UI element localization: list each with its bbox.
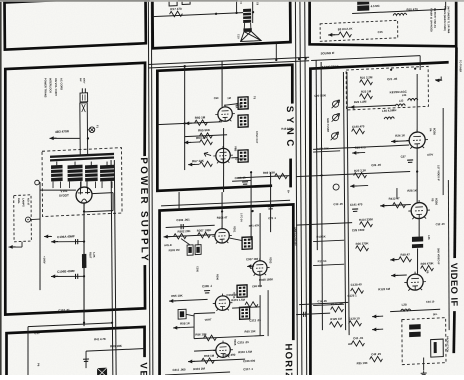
arrow V6 grid [391, 273, 398, 277]
right vertical wire H [442, 108, 443, 195]
svg-text:R71 47K: R71 47K [249, 223, 260, 227]
dot C/D bus [83, 321, 85, 323]
tube V305 [213, 340, 233, 358]
svg-text:R308 180K: R308 180K [259, 277, 273, 282]
svg-text:SOUND IF: SOUND IF [321, 51, 335, 56]
cap on G-H wire [304, 312, 306, 317]
svg-text:C316 600: C316 600 [243, 359, 256, 364]
drop to M1 [85, 351, 87, 368]
svg-text:POWER SUPPLY: POWER SUPPLY [138, 157, 150, 263]
svg-text:C29 1500: C29 1500 [352, 228, 365, 233]
junction on audio wire [215, 13, 217, 15]
svg-text:C69 390: C69 390 [252, 284, 263, 288]
svg-text:HORIZ: HORIZ [283, 343, 294, 375]
panel tuner (top-left, empty) [5, 0, 146, 50]
V8B feed vertical [223, 128, 224, 192]
wire video-if column a [343, 72, 345, 330]
svg-text:300V: 300V [82, 78, 84, 84]
cap C66A [242, 182, 248, 185]
T101 winding box 1 [51, 165, 63, 182]
svg-text:R473 1.5M: R473 1.5M [231, 298, 245, 303]
svg-text:150V: 150V [427, 152, 433, 156]
wire V303 up [259, 213, 262, 261]
svg-text:71-BZ8 (WHEN USED): 71-BZ8 (WHEN USED) [443, 6, 446, 31]
resistor hold [245, 302, 258, 308]
arrow resistor row [164, 235, 171, 239]
bus wire mid separator 2 [299, 0, 303, 375]
svg-text:L26: L26 [427, 235, 431, 240]
svg-text:JW TUNERS 71 OR JW8: JW TUNERS 71 OR JW8 [447, 6, 450, 34]
svg-text:C313 .05: C313 .05 [249, 318, 261, 323]
svg-text:R40 18K: R40 18K [110, 344, 123, 349]
vertical wire from bus [184, 66, 186, 170]
svg-text:AC CORD: AC CORD [60, 78, 64, 90]
svg-text:C303 .001: C303 .001 [176, 218, 190, 223]
cap C27 [407, 160, 413, 163]
dot C/D bus 2 [111, 322, 113, 324]
wire across E/G gap [161, 200, 290, 206]
arrow R67 [188, 162, 195, 166]
resistor R59 [202, 358, 215, 364]
svg-text:L40 4.5MH: L40 4.5MH [382, 108, 396, 113]
V5 feed wire [396, 188, 398, 199]
V101 loop right [112, 193, 114, 211]
resistor R21 [360, 79, 373, 85]
resistor R69 [275, 173, 288, 179]
svg-text:R41 4.7K: R41 4.7K [94, 337, 106, 342]
arrow C106B [51, 274, 58, 278]
svg-text:R55 10K: R55 10K [171, 294, 183, 299]
test point 3 [331, 132, 339, 140]
gap crossing wire 3 [251, 172, 252, 240]
svg-text:C27: C27 [401, 154, 407, 158]
svg-text:C317 .1: C317 .1 [243, 367, 253, 371]
resistor R124 [331, 306, 344, 312]
wire V303 down [259, 275, 261, 287]
thin wire along video-if border [448, 180, 450, 330]
horiz xfmr A [237, 285, 247, 297]
dashed box keyed AGC [346, 66, 428, 110]
svg-text:R21 2.2M: R21 2.2M [360, 75, 373, 80]
V8B grid diagonal arrow [204, 152, 211, 156]
svg-text:R23 1.8M: R23 1.8M [354, 100, 367, 105]
svg-text:C32 .05: C32 .05 [436, 222, 446, 226]
T101 secondary bar [50, 156, 114, 161]
tube V301 [212, 226, 232, 244]
arrow agc line [350, 105, 357, 109]
svg-text:C306 390: C306 390 [223, 353, 236, 358]
plug prong 1 [81, 88, 83, 93]
wire left strip 2 [313, 240, 344, 241]
bus wire horiz B/E gap 1 [148, 57, 309, 64]
fuse stub [87, 129, 89, 131]
svg-text:R58 1K: R58 1K [180, 321, 191, 325]
svg-text:VIDEO IF: VIDEO IF [449, 263, 459, 307]
wire C303 row [166, 225, 215, 227]
svg-text:C41 .01: C41 .01 [353, 336, 364, 340]
loop top [194, 312, 215, 315]
cap C303 [181, 224, 183, 229]
svg-text:C129 10: C129 10 [349, 316, 360, 321]
arrow near L28 [372, 314, 379, 318]
bus wire mid separator 3 [304, 0, 308, 375]
dot AGC box top 2 [414, 67, 416, 69]
svg-text:ON VOL CONT: ON VOL CONT [54, 78, 58, 97]
svg-text:C15: C15 [378, 30, 384, 34]
stub B bottom to bus [275, 44, 277, 61]
arrow C25 [352, 151, 359, 155]
tube V304 [213, 293, 233, 311]
arrow left dashed box [44, 234, 51, 238]
speaker lead 1 [243, 23, 245, 29]
svg-text:R29 470K: R29 470K [421, 261, 435, 266]
cap C106B [76, 274, 78, 279]
svg-text:V303: V303 [269, 257, 273, 264]
svg-text:4B3 470R: 4B3 470R [55, 129, 70, 134]
svg-text:C26 .05: C26 .05 [371, 163, 381, 167]
svg-text:C141 470: C141 470 [350, 202, 363, 207]
svg-text:2ND VIDEO IF: 2ND VIDEO IF [437, 248, 440, 265]
svg-text:L28: L28 [402, 302, 407, 306]
svg-text:C308 .1: C308 .1 [202, 284, 213, 288]
wire left strip 3 [313, 264, 344, 265]
svg-text:R412 47: R412 47 [389, 196, 400, 201]
svg-text:INTERLOCK: INTERLOCK [49, 78, 53, 93]
svg-text:R10 1K: R10 1K [317, 234, 326, 238]
speaker coil [243, 28, 251, 31]
svg-text:C106A 40MF: C106A 40MF [57, 234, 75, 239]
grid wire row 2 [185, 135, 227, 137]
wire drop to AGC box [419, 56, 421, 70]
scan left edge [0, 2, 2, 375]
arrow in dashed box [328, 33, 335, 37]
video-if right border upper [453, 48, 458, 259]
svg-text:B3 K3 2-7K: B3 K3 2-7K [338, 27, 353, 32]
arrow V5 grid [380, 204, 387, 208]
left column vertical wire 1 [111, 160, 113, 375]
resistor R414 [360, 221, 373, 227]
dashed enclosure T101 [42, 148, 122, 217]
resistor R65 [200, 133, 213, 139]
svg-text:R67 12K: R67 12K [192, 159, 205, 164]
interlock plug [80, 93, 88, 102]
test point 4 [333, 184, 339, 190]
lamp wire [31, 218, 40, 221]
svg-text:V301: V301 [233, 226, 237, 233]
cut component B top 1 [169, 0, 177, 6]
V305 grid wire [194, 349, 216, 352]
arrow C106A [51, 240, 58, 244]
vert control box [178, 309, 186, 319]
wire left strip 4 [313, 304, 344, 305]
dashed IF transformer can [402, 318, 446, 365]
svg-text:C315 .05: C315 .05 [237, 340, 249, 345]
svg-text:R5 R6 R7 USE AS: R5 R6 R7 USE AS [433, 8, 436, 29]
wire to control 1 [181, 238, 190, 245]
sync xfmr 3 [238, 150, 248, 162]
svg-text:HOLD: HOLD [164, 243, 172, 247]
video-if right border lower [453, 311, 454, 353]
V4 plate drop [416, 149, 419, 203]
arrow R28 [390, 258, 397, 262]
wire left strip [313, 151, 340, 152]
arrow V4 grid [391, 139, 398, 143]
resistor bottom left H [352, 340, 365, 346]
svg-text:R15 470: R15 470 [406, 7, 418, 12]
wire G to H a [299, 302, 348, 304]
gap crossing wire 2 [221, 192, 224, 229]
svg-text:C107 .01: C107 .01 [58, 308, 70, 313]
svg-text:C307 180: C307 180 [246, 257, 259, 262]
svg-text:C25 470: C25 470 [355, 145, 366, 150]
control box 2 [195, 245, 201, 255]
sound take-off transformer [357, 0, 369, 11]
panel video-if top+left [308, 62, 451, 380]
svg-text:L23: L23 [399, 98, 404, 102]
svg-text:C311 .005: C311 .005 [172, 367, 186, 372]
T2 lead left [235, 0, 237, 13]
cut component B top 2 [182, 0, 190, 4]
panel power-supply (left) [3, 63, 147, 315]
long wire into H mid [296, 171, 410, 176]
arrow bottom row [188, 359, 195, 363]
arrow V303 grid [247, 264, 254, 268]
cap C308 [204, 290, 210, 293]
test point 2 [332, 113, 340, 121]
svg-text:R60 10K: R60 10K [245, 329, 256, 333]
svg-text:VERT: VERT [137, 362, 148, 375]
resistor R502 [174, 233, 187, 239]
arrow R64 [184, 140, 191, 144]
resistor R412 [393, 202, 406, 208]
coil L40 [384, 117, 394, 119]
svg-text:R107: R107 [89, 252, 93, 259]
bottom row wire [188, 359, 245, 362]
wire video det [390, 309, 440, 311]
stub at top [445, 0, 447, 9]
plug prong 2 [84, 88, 86, 93]
bus wire horiz B/E gap 2 [148, 61, 309, 68]
T7 slug [434, 342, 437, 353]
panel vert (bottom-left) [6, 327, 145, 380]
svg-text:R22 1M: R22 1M [361, 89, 372, 93]
svg-text:R26 270K: R26 270K [356, 241, 370, 246]
coil L24 above V4 [408, 98, 418, 100]
sound if top wire [352, 9, 446, 13]
svg-text:2 TO 5V: 2 TO 5V [240, 213, 243, 222]
V101 plate stub 1 [80, 181, 82, 187]
pilot lamp [25, 217, 30, 222]
svg-text:R28 1K: R28 1K [407, 188, 417, 192]
svg-text:C60: C60 [214, 96, 219, 100]
svg-text:C21 .05: C21 .05 [387, 77, 398, 81]
wire in D to border [86, 348, 145, 351]
svg-text:R306: R306 [216, 274, 219, 281]
coil L28 [401, 309, 411, 311]
svg-text:1.2K: 1.2K [92, 252, 96, 258]
wire to V101 [40, 188, 76, 191]
svg-text:R11 1K: R11 1K [318, 259, 327, 263]
svg-text:C305: C305 [196, 266, 199, 273]
cap in D [83, 359, 89, 362]
svg-text:POWER TRANS: POWER TRANS [44, 78, 48, 98]
wire to control 2 [197, 240, 199, 245]
scan top edge [0, 0, 464, 2]
resistor R307 [198, 232, 211, 238]
svg-text:R310 1.5M: R310 1.5M [238, 350, 252, 355]
wire V304 grid [169, 299, 208, 301]
tube V303 [250, 258, 270, 276]
speaker lead 2 [250, 23, 252, 29]
svg-text:TUNER IS CHANGED: TUNER IS CHANGED [429, 8, 432, 32]
L27 to V6 [416, 248, 418, 274]
svg-text:SAWTOOTH 50V: SAWTOOTH 50V [294, 227, 297, 246]
svg-text:NO 47: NO 47 [27, 198, 30, 206]
svg-text:R65 56K: R65 56K [198, 128, 211, 133]
panel sync right border lower segment [289, 159, 292, 188]
line cord [80, 103, 88, 156]
gap crossing wire 4 [269, 172, 272, 232]
arrow AC line [49, 136, 56, 140]
tube V4 1st video if [406, 129, 428, 149]
svg-text:R17 470: R17 470 [170, 7, 182, 12]
svg-text:R310 2M: R310 2M [193, 367, 205, 372]
rectifier tube V101 [76, 187, 92, 206]
audio wire [153, 13, 244, 17]
resistor near C129 [349, 320, 362, 326]
coil T7 bottom [409, 332, 421, 338]
agc bent arrow stem [435, 77, 441, 80]
resistor R28 [399, 256, 412, 262]
wire resistor row [164, 235, 216, 237]
ground bottom H [421, 371, 427, 376]
dot wire H [320, 174, 322, 176]
wire to ground [423, 358, 425, 371]
resistor R64 [200, 139, 213, 145]
sync tube V8A [215, 104, 235, 122]
vertical wire hold [259, 295, 262, 336]
T101 winding box 3 [85, 165, 98, 182]
svg-text:TO TUNER: TO TUNER [459, 60, 462, 73]
svg-text:C30 .05: C30 .05 [333, 202, 343, 206]
svg-text:SMD TUNER: SMD TUNER [326, 118, 329, 133]
svg-text:V8B: V8B [234, 146, 238, 151]
svg-text:C106B 40MF: C106B 40MF [57, 269, 75, 274]
svg-text:R48 1.5K: R48 1.5K [281, 126, 292, 131]
wire hold row [232, 307, 260, 308]
resistor R25 [354, 172, 367, 178]
dashed box pilot lamps [14, 195, 32, 242]
svg-text:SYNC OUT: SYNC OUT [255, 131, 258, 144]
resistor R26 [356, 245, 369, 251]
svg-text:R303 1M: R303 1M [169, 248, 181, 253]
svg-text:1M: 1M [227, 96, 231, 100]
fuse circle [89, 127, 95, 133]
resistor R17 [170, 11, 183, 17]
resistor R22 [360, 93, 373, 99]
component box D [97, 368, 107, 377]
svg-text:R24 1K: R24 1K [395, 133, 406, 137]
wire control to loop [186, 314, 194, 316]
agc line long [348, 105, 396, 107]
coil L26 [412, 236, 423, 242]
grid wire row 1 [157, 122, 222, 125]
svg-text:SEL: SEL [433, 313, 438, 316]
svg-text:C14 .05: C14 .05 [317, 299, 327, 303]
svg-text:5Y3GT: 5Y3GT [59, 193, 69, 197]
svg-text:VERT: VERT [205, 317, 212, 321]
V4 plate feed from top [416, 74, 419, 133]
resistor R125 [330, 321, 343, 327]
svg-text:4.5 MC TRAP: 4.5 MC TRAP [322, 64, 339, 69]
dot V4 plate x wire [416, 170, 418, 172]
coil L27 [412, 244, 423, 248]
E bottom row wire [238, 176, 290, 178]
svg-text:C66A 40: C66A 40 [235, 176, 246, 181]
junction dot R69 row [250, 171, 252, 173]
wire right G [267, 290, 270, 336]
svg-text:R304 47: R304 47 [217, 215, 228, 219]
resistor R67 [200, 161, 213, 167]
V101 plate stub 2 [86, 181, 88, 187]
resistor near C42 [370, 356, 383, 362]
arrow R58 [173, 326, 180, 330]
B+ wire down [83, 203, 85, 326]
svg-text:LAMPS: LAMPS [22, 198, 25, 207]
svg-text:R35 10K: R35 10K [357, 361, 368, 365]
svg-text:6CB6: 6CB6 [432, 128, 436, 136]
wire along H top [311, 56, 420, 61]
loop bottom wire [194, 335, 264, 338]
control box 1 [187, 245, 193, 255]
svg-text:PRODUCTION: PRODUCTION [446, 336, 449, 352]
T7 slug box [431, 339, 444, 357]
wire V301 to xfmr [230, 238, 243, 242]
svg-text:6CB6: 6CB6 [434, 198, 438, 206]
bus wire left separator 1 [147, 0, 152, 375]
wire down into vert panel [27, 327, 30, 376]
wire inside video-if left 2 [320, 62, 323, 330]
wire into V8A from bus [221, 61, 224, 107]
arrow row 1 [185, 121, 192, 125]
svg-text:DIAL: DIAL [17, 198, 20, 204]
svg-text:C20 1500: C20 1500 [314, 93, 326, 98]
bottom wire 2 [165, 372, 230, 375]
horiz xfmr B [240, 307, 250, 319]
svg-text:C42 .25: C42 .25 [371, 352, 381, 356]
svg-text:L24: L24 [402, 93, 407, 97]
svg-text:C140 470: C140 470 [352, 124, 365, 129]
svg-text:R28 47: R28 47 [400, 252, 410, 256]
wire G to H b [296, 313, 330, 315]
xfmr phase det [242, 237, 252, 249]
wire tube to xfmr3 [231, 157, 237, 159]
cap C141 [352, 209, 358, 212]
cap C106A [76, 239, 78, 244]
svg-text:R502 20K: R502 20K [178, 229, 192, 234]
V101 loop top [92, 192, 113, 195]
wire video-if column b [347, 72, 349, 335]
resistor R56 [204, 335, 217, 341]
sync tube V8B [213, 146, 233, 164]
dot bus 2 [304, 57, 306, 59]
arrow pilot feed [8, 245, 15, 249]
bus wire left separator 2 [150, 0, 155, 375]
panel horiz (middle-bottom) [158, 204, 294, 380]
gap crossing wire 1 [178, 192, 180, 211]
svg-text:R59 1M: R59 1M [204, 354, 215, 358]
svg-text:C138 40: C138 40 [351, 282, 362, 287]
